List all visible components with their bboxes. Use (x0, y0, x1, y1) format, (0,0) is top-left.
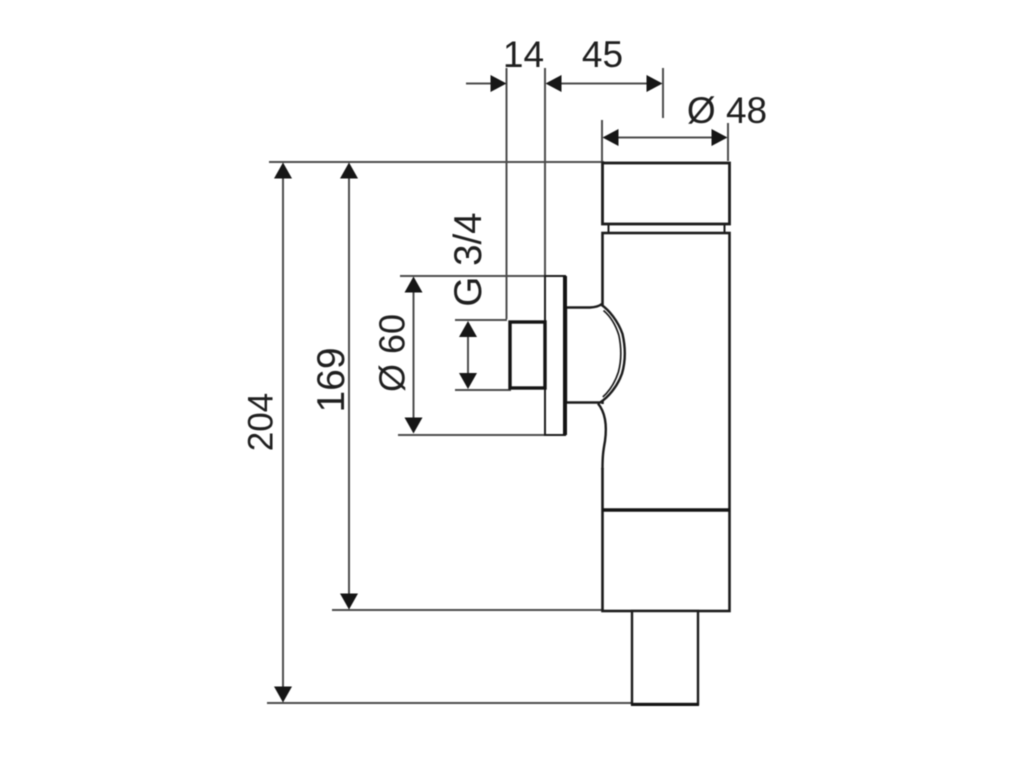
svg-text:45: 45 (582, 34, 623, 75)
svg-text:204: 204 (242, 393, 281, 451)
svg-text:G 3/4: G 3/4 (447, 212, 490, 306)
svg-text:Ø 48: Ø 48 (687, 90, 767, 131)
svg-text:Ø 60: Ø 60 (372, 314, 413, 392)
svg-text:14: 14 (503, 34, 544, 75)
svg-text:169: 169 (310, 347, 353, 412)
